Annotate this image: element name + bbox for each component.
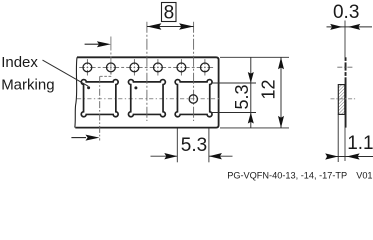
dim 12 bottom arrowhead: [278, 116, 284, 128]
sprocket hole 4 vertical centerline tick: [157, 59, 159, 76]
feed direction arrow (top, points right at hole 2 centerline): [85, 43, 99, 45]
sprocket hole 1: [83, 63, 92, 72]
dim 8 left arrowhead: [147, 23, 162, 29]
dim 5.3 bottom: right arrowhead pointing left: [209, 153, 222, 159]
svg-text:8: 8: [164, 3, 175, 24]
dim 12 bottom extension line: [220, 127, 289, 129]
side view: pocket face extension line down to dim 1.1: [337, 114, 339, 162]
dim 8 frame box: [162, 3, 177, 22]
dim 0.3 right arrowhead pointing left: [348, 24, 360, 30]
sprocket hole 2 vertical centerline tick: [110, 37, 112, 76]
pocket 2 outline with corner relief lobes: [128, 80, 165, 117]
dim 8 right arrowhead: [179, 23, 194, 29]
leader line from Index Marking label to chip dot: [43, 60, 89, 86]
pocket 3 outline with corner relief lobes: [175, 80, 212, 117]
dim 1.1 left arrowhead pointing right: [325, 153, 338, 159]
side view: pocket bulge with hatched chip section: [338, 85, 345, 115]
sprocket hole 6: [201, 63, 210, 72]
pocket 3 vertical centerline / dim 8 right extension: [193, 22, 195, 121]
svg-text:1.1: 1.1: [347, 133, 373, 154]
chip index marking dot in pocket 2: [134, 86, 137, 89]
sprocket hole 5 vertical centerline tick: [180, 59, 182, 76]
dim 5.3 bottom: right extension line: [208, 128, 210, 162]
svg-text:12: 12: [258, 79, 278, 99]
dim 0.3 line: [327, 26, 373, 28]
dim 5.3 bottom: left extension line: [176, 128, 178, 162]
sprocket hole 3 vertical centerline tick: [133, 59, 135, 76]
dim 5.3 right: dimension line: [250, 57, 252, 128]
dim 5.3 bottom: right tail line: [209, 155, 233, 157]
pocket 1 outline with corner relief lobes: [81, 80, 118, 117]
dim 5.3 right: top extension line: [212, 82, 257, 84]
sprocket hole 1 vertical centerline tick: [86, 59, 88, 76]
chip index marking dot in pocket 1: [87, 86, 90, 89]
side view: tape surface extension line (full height): [344, 21, 346, 162]
pocket 2 vertical centerline / dim 8 left extension: [146, 22, 148, 121]
dim 1.1 right arrowhead pointing left: [347, 153, 360, 159]
tape left torn edge: [75, 57, 77, 127]
svg-text:Marking: Marking: [1, 76, 54, 93]
side view: pocket horizontal centerline: [331, 98, 357, 100]
side view: tape cross-section 0.3 thick: [345, 57, 347, 127]
pocket 3 center hole (empty pocket): [189, 95, 197, 103]
dashed connector from sprocket hole 2 to pocket 1 centerline: [100, 72, 111, 76]
svg-text:PG-VQFN-40-13, -14, -17-TP: PG-VQFN-40-13, -14, -17-TP: [227, 170, 347, 180]
dim 5.3 right: bottom extension line: [212, 112, 257, 114]
dim 1.1 line: [327, 156, 373, 158]
sprocket hole 6 vertical centerline tick: [204, 59, 206, 76]
side view: sprocket hole hidden-line gaps in section: [344, 61, 347, 77]
dim 0.3 left arrowhead pointing right: [330, 24, 342, 30]
dim 5.3 bottom: left arrowhead pointing right: [164, 153, 177, 159]
svg-text:5.3: 5.3: [232, 84, 252, 109]
sprocket row centerline (horizontal dash-dot through holes): [79, 66, 213, 68]
dim 5.3 bottom: left tail line: [151, 155, 178, 157]
svg-text:0.3: 0.3: [333, 2, 359, 23]
dim 8 line: [147, 26, 194, 28]
dim 12 line: [280, 57, 282, 128]
svg-text:V01: V01: [356, 170, 372, 180]
svg-text:Index: Index: [1, 54, 38, 71]
dim 12 top extension line: [220, 56, 289, 58]
sprocket hole 4: [154, 63, 163, 72]
carrier tape outline (front view, top/right/bottom edges): [75, 57, 218, 127]
pocket 1 vertical centerline: [99, 76, 101, 140]
pocket row centerline (light gray dashed horizontal): [77, 98, 220, 100]
sprocket hole 2: [107, 63, 116, 72]
sprocket hole 3: [130, 63, 139, 72]
dim 5.3 right: lower arrowhead pointing up: [248, 113, 254, 124]
dim 5.3 right: upper arrowhead pointing down: [248, 72, 254, 83]
side view: sprocket hole row centerline: [337, 66, 354, 68]
feed direction arrow (bottom, points right at pocket 1 centerline): [71, 137, 86, 139]
svg-text:5.3: 5.3: [181, 135, 207, 156]
dim 12 top arrowhead: [278, 57, 284, 69]
sprocket hole 5: [177, 63, 186, 72]
